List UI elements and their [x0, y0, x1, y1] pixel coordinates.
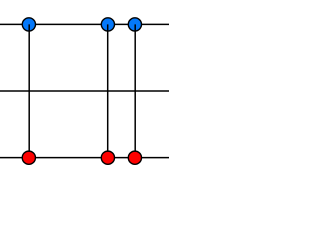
node R3 (red, bottom-right) [128, 151, 141, 164]
node B3 (blue, top-right) [128, 18, 141, 31]
wire: top horizontal line [0, 23, 169, 25]
node R2 (red, bottom-middle) [101, 151, 114, 164]
wire: middle horizontal line [0, 90, 169, 92]
wire: bottom horizontal line [0, 157, 169, 159]
wire: right vertical line [134, 24, 136, 157]
node R1 (red, bottom-left) [22, 151, 35, 164]
node B2 (blue, top-middle) [101, 18, 114, 31]
node B1 (blue, top-left) [22, 18, 35, 31]
wire: middle vertical line [107, 24, 109, 157]
wire: left vertical line [28, 24, 30, 157]
